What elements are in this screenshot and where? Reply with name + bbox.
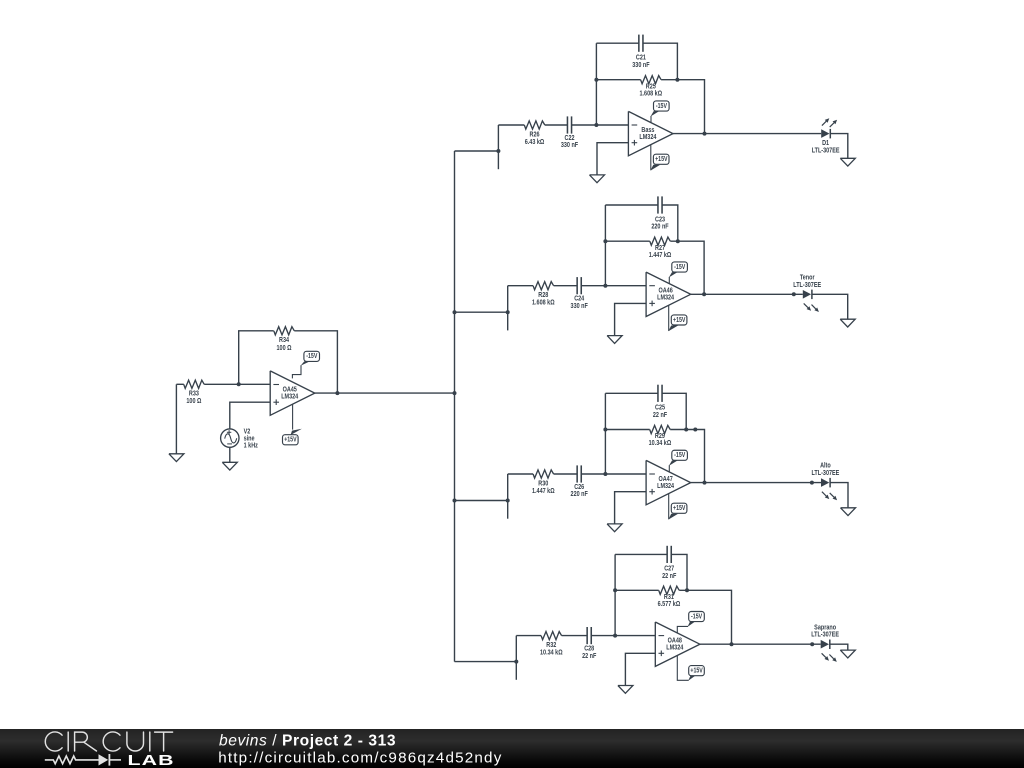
junction feedback rows [603,239,607,243]
junction output wire [810,481,814,485]
power flag -15V (OA47) [669,450,688,472]
label D1 LTL-307EE [812,140,840,155]
svg-text:22 nF: 22 nF [582,652,596,660]
label Tenor LTL-307EE [793,274,821,289]
junction feedback / output [730,642,734,646]
wire OA45 output to bus [315,392,455,394]
capacitor C21 [639,35,643,52]
wire feedback right vertical [294,331,337,393]
label OA47 LM324 [657,475,674,490]
junction output wire [810,642,814,646]
wire Bass non-inverting input to ground [597,143,628,175]
LED Alto (LTL-307EE) [821,478,837,500]
resistor R25 [641,76,662,84]
label C21 330 nF [632,54,649,69]
power flag -15V (OA45) [292,351,319,378]
capacitor C26 [577,465,581,482]
junction on bus [453,499,457,503]
label R26 6.43 kΩ [525,131,545,146]
op-amp OA48 (LM324) [655,622,700,666]
ground (D1) [840,158,855,166]
power flag -15V (OA46) [669,262,688,284]
banner url text [218,750,502,767]
wire OA47 output to Alto [691,482,821,484]
svg-text:LTL-307EE: LTL-307EE [812,147,840,155]
power flag +15V (OA45) [283,404,302,444]
wire OA48 non-inverting input to ground [625,653,655,685]
junction cap loop / resistor row [676,239,680,243]
svg-text:22 nF: 22 nF [662,572,676,580]
op-amp OA45 (LM324) [270,371,315,415]
CircuitLab logo: CIRCUIT thin-stroke letters [45,732,172,751]
svg-text:100 Ω: 100 Ω [186,397,201,405]
svg-text:LM324: LM324 [657,482,674,490]
svg-text:10.34 kΩ: 10.34 kΩ [649,439,672,447]
wire OA48 output to Saprano [700,643,821,645]
CircuitLab logo: LAB text [128,751,175,768]
capacitor C27 [667,546,671,563]
power flag +15V (OA48) [677,655,704,680]
svg-text:-15V: -15V [306,353,318,361]
label V2 sine 1 kHz [244,428,259,450]
wire OA46 output to Tenor [691,293,803,295]
svg-text:330 nF: 330 nF [632,61,649,69]
label C26 220 nF [571,483,588,498]
wire R30 to C26 [554,473,578,475]
svg-text:220 nF: 220 nF [651,223,668,231]
capacitor C25 [658,385,662,402]
LED D1 (LTL-307EE) [821,118,837,138]
wire Saprano cathode to ground [830,644,848,650]
capacitor C28 [587,627,591,644]
wire V2 to ground [229,447,231,462]
junction feedback / inverting input [603,284,607,288]
wire feedback top row right [643,43,677,79]
junction node A (R33/R34/OA45-) [237,382,241,386]
label R30 1.447 kΩ [532,480,555,495]
label R27 1.447 kΩ [649,244,672,259]
wire R32 to C28 [562,635,588,637]
svg-text:1 kHz: 1 kHz [244,442,259,450]
wire feedback top row left [596,42,638,44]
wire feedback left vertical [604,205,606,286]
junction feedback rows [594,78,598,82]
junction on bus [453,310,457,314]
label R31 6.577 kΩ [658,593,681,608]
label R28 1.608 kΩ [532,291,555,306]
svg-text:220 nF: 220 nF [571,491,588,499]
ground (Tenor) [840,319,855,327]
junction input branch [506,310,510,314]
svg-text:LM324: LM324 [281,393,298,401]
wire feedback top row right [662,205,678,241]
svg-text:10.34 kΩ: 10.34 kΩ [540,649,563,657]
CircuitLab logo: resistor-diode glyph [45,754,121,766]
svg-text:LM324: LM324 [657,294,674,302]
svg-text:330 nF: 330 nF [571,302,588,310]
svg-text:+15V: +15V [673,316,686,324]
junction feedback / inverting input [603,472,607,476]
label R29 10.34 kΩ [649,432,672,447]
wire Tenor cathode to ground [812,294,848,319]
ground (Saprano) [840,650,855,658]
junction bus / OA45 output [453,391,457,395]
wire feedback left vertical [239,331,274,385]
wire R33 left lead to ground [175,384,177,454]
power flag -15V (Bass) [651,101,670,123]
op-amp Bass (LM324) [628,111,673,155]
wire feedback left vertical [604,393,606,474]
wire feedback top row left [615,553,667,555]
wire input node [176,383,183,385]
capacitor C23 [658,196,662,213]
label R34 100 Ω [276,336,291,352]
wire C28 to OA48 inverting input [591,635,655,637]
junction feedback / inverting input [613,634,617,638]
wire R32 lead [516,635,541,637]
junction input branch [506,499,510,503]
wire feedback resistor row left [605,240,649,242]
svg-text:1.447 kΩ: 1.447 kΩ [532,487,555,495]
wire feedback resistor row right [661,80,704,134]
junction feedback rows [603,428,607,432]
svg-text:-15V: -15V [674,263,686,271]
wire input stub [497,125,499,169]
ground (OA48) [618,686,633,694]
bottom banner background [0,729,1024,768]
svg-text:http://circuitlab.com/c986qz4d: http://circuitlab.com/c986qz4d52ndy [218,750,502,767]
wire R33 to OA45 inverting input [204,383,270,385]
wire feedback top row right [671,554,687,590]
svg-text:LTL-307EE: LTL-307EE [811,631,839,639]
wire input stub [515,636,517,680]
label C22 330 nF [561,134,578,149]
svg-text:-15V: -15V [656,102,668,110]
wire R26 to C22 [545,124,568,126]
wire input stub [507,286,509,331]
wire feedback resistor row right [679,590,731,644]
label OA45 LM324 [281,386,298,401]
wire Alto cathode to ground [830,483,848,508]
svg-text:-15V: -15V [691,613,703,621]
label Bass LM324 [639,126,656,141]
svg-text:LTL-307EE: LTL-307EE [793,281,821,289]
svg-text:6.43 kΩ: 6.43 kΩ [525,138,545,146]
power flag -15V (OA48) [677,612,704,633]
svg-text:1.608 kΩ: 1.608 kΩ [532,299,555,307]
wire bus branch to R30 [455,500,508,502]
wire feedback top row right [662,393,686,429]
junction feedback / output [702,292,706,296]
junction output wire [792,292,796,296]
label Alto LTL-307EE [811,462,839,477]
ground (Bass) [590,175,605,183]
label R25 1.608 kΩ [640,83,663,98]
ground (OA47) [607,524,622,532]
wire feedback resistor row right [670,430,704,483]
wire R28 lead [508,285,533,287]
junction feedback rows [613,588,617,592]
label R33 100 Ω [186,390,201,405]
svg-text:LM324: LM324 [639,133,656,141]
svg-text:bevins / Project 2 - 313: bevins / Project 2 - 313 [219,733,396,750]
svg-text:100 Ω: 100 Ω [276,344,291,352]
resistor R31 [659,586,680,594]
label C25 22 nF [653,404,667,419]
svg-text:+15V: +15V [673,504,686,512]
LED Tenor (LTL-307EE) [803,290,819,312]
wire bus branch to R32 [455,661,517,663]
wire D1 cathode to ground [830,134,848,159]
banner title text: bevins / Project 2 - 313 [219,733,396,750]
svg-text:+15V: +15V [690,667,703,675]
resistor R29 [650,425,671,433]
wire feedback resistor row right [670,241,704,294]
wire feedback resistor row left [596,79,640,81]
wire bus branch to R28 [455,311,508,313]
resistor R27 [650,237,671,245]
junction feedback / inverting input [594,123,598,127]
junction feedback / output [703,481,707,485]
ground (Alto) [841,508,856,516]
resistor R32 [541,632,562,640]
ground (V2) [222,462,237,470]
LED Saprano (LTL-307EE) [821,640,837,662]
svg-text:1.447 kΩ: 1.447 kΩ [649,251,672,259]
resistor R28 [533,282,554,290]
label OA48 LM324 [666,637,683,652]
wire bus branch to R26 [455,150,499,152]
svg-text:6.577 kΩ: 6.577 kΩ [658,600,681,608]
wire feedback left vertical [595,43,597,125]
power flag +15V (OA46) [668,305,687,331]
svg-text:+15V: +15V [284,436,297,444]
wire R28 to C24 [554,285,578,287]
label C27 22 nF [662,565,676,580]
power flag +15V (Bass) [650,145,669,171]
power flag +15V (OA47) [668,494,687,520]
op-amp OA46 (LM324) [646,272,691,316]
wire R26 lead [498,124,524,126]
wire OA46 non-inverting input to ground [615,303,647,335]
capacitor C24 [577,277,581,294]
resistor R30 [533,470,554,478]
wire feedback top row left [605,392,658,394]
svg-text:+15V: +15V [655,155,668,163]
svg-text:R34: R34 [279,336,289,344]
ground (R33) [169,454,184,462]
label Saprano LTL-307EE [811,624,839,639]
label C24 330 nF [571,295,588,310]
svg-text:LM324: LM324 [666,644,683,652]
ground (OA46) [607,336,622,344]
svg-text:330 nF: 330 nF [561,142,578,150]
wire C22 to Bass inverting input [572,124,629,126]
voltage source V2 [221,429,239,447]
wire bus vertical (node: OA45 output net) [454,151,456,662]
wire Bass output to D1 [673,133,821,135]
wire OA47 non-inverting input to ground [615,492,647,524]
junction feedback / output [703,132,707,136]
junction input branch [514,660,518,664]
svg-text:22 nF: 22 nF [653,411,667,419]
junction [693,428,697,432]
wire feedback top row left [605,204,658,206]
wire input stub [507,474,509,519]
wire feedback left vertical [614,554,616,635]
svg-text:-15V: -15V [674,451,686,459]
svg-text:LTL-307EE: LTL-307EE [811,469,839,477]
junction input branch [496,149,500,153]
label C23 220 nF [651,216,668,231]
op-amp OA47 (LM324) [646,460,691,504]
capacitor C22 [567,116,571,133]
wire feedback resistor row left [605,429,649,431]
wire OA45 non-inverting input to V2 [230,402,270,429]
wire R30 lead [508,473,533,475]
wire feedback resistor row left [615,589,659,591]
resistor R26 [524,121,545,129]
label C28 22 nF [582,645,596,660]
label OA46 LM324 [657,287,674,302]
svg-text:1.608 kΩ: 1.608 kΩ [640,90,663,98]
wire C24 to OA46 inverting input [581,285,646,287]
resistor R33 [184,380,205,388]
junction cap loop / resistor row [675,78,679,82]
resistor R34 [274,327,295,335]
svg-text:LAB: LAB [128,751,175,768]
wire C26 to OA47 inverting input [581,473,646,475]
label R32 10.34 kΩ [540,641,563,656]
junction cap loop / resistor row [684,428,688,432]
junction OA45 output / feedback [335,391,339,395]
junction cap loop / resistor row [685,588,689,592]
